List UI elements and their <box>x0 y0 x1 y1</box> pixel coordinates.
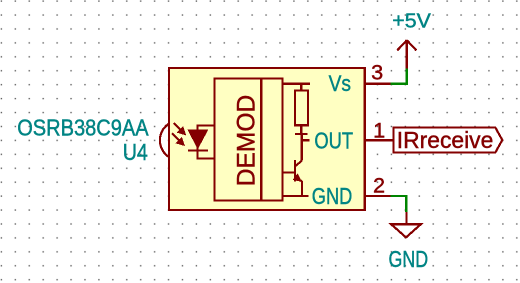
wire pin2 to GND <box>391 196 407 212</box>
svg-text:OSRB38C9AA: OSRB38C9AA <box>17 114 149 140</box>
pin 3 (Vs) <box>365 83 393 85</box>
pin 1 (OUT) <box>365 139 393 141</box>
svg-text:2: 2 <box>373 173 385 198</box>
svg-text:DEMOD: DEMOD <box>233 95 260 187</box>
svg-text:OUT: OUT <box>314 127 353 153</box>
svg-text:IRreceive: IRreceive <box>397 127 494 153</box>
svg-text:U4: U4 <box>123 139 148 165</box>
DEMOD block <box>215 79 262 201</box>
svg-text:1: 1 <box>373 118 385 143</box>
IC U4 body <box>169 68 365 210</box>
svg-text:GND: GND <box>389 246 429 272</box>
transistor (internal NPN) <box>283 160 303 196</box>
pin 2 (GND) <box>365 195 393 197</box>
lens dome <box>160 123 169 157</box>
IR light arrows <box>172 123 185 145</box>
wire pin3 to +5V <box>391 69 407 84</box>
photodiode (internal) <box>188 126 215 159</box>
svg-text:3: 3 <box>371 60 383 85</box>
resistor (internal) <box>295 84 308 134</box>
svg-text:GND: GND <box>312 183 353 209</box>
internal GND rail <box>283 195 309 197</box>
svg-text:Vs: Vs <box>329 71 351 96</box>
global label IRreceive <box>394 127 503 153</box>
power symbol +5V <box>397 40 416 68</box>
internal Vs rail <box>283 83 311 85</box>
internal OUT stub <box>302 134 310 161</box>
svg-text:+5V: +5V <box>392 11 431 33</box>
internal wire: demod bracket to transistor base <box>261 79 282 201</box>
ground symbol <box>391 212 421 237</box>
